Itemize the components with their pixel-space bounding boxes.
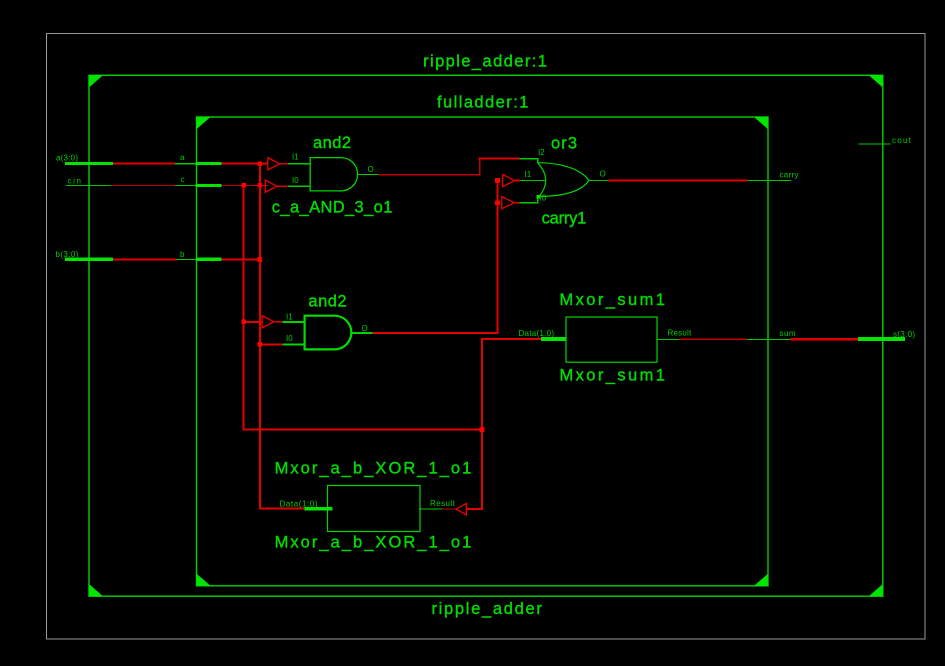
wire cin red bbox=[111, 185, 175, 186]
svg-text:Mxor_a_b_XOR_1_o1: Mxor_a_b_XOR_1_o1 bbox=[275, 459, 472, 477]
node square or3 bottom-left bbox=[536, 195, 540, 199]
svg-text:I1: I1 bbox=[525, 170, 532, 179]
and2 gate c_a_AND_3_o1 bbox=[272, 134, 393, 217]
pin O wire and2b bbox=[351, 332, 372, 334]
svg-text:Result: Result bbox=[430, 499, 456, 508]
svg-text:Mxor_sum1: Mxor_sum1 bbox=[560, 367, 665, 385]
junction or3 I1 row V4 bbox=[495, 178, 500, 183]
svg-text:O: O bbox=[600, 170, 606, 179]
pin I0 bend or3 bbox=[537, 197, 538, 203]
svg-text:I1: I1 bbox=[286, 313, 293, 322]
and2 gate lower (Mand) bbox=[305, 292, 352, 349]
wire V2 horizontal y=429.5 bbox=[243, 429, 483, 431]
svg-text:c: c bbox=[181, 175, 185, 184]
pin b bar on fulladder bbox=[196, 258, 222, 261]
output port s(3:0) bar bbox=[858, 337, 905, 341]
svg-text:O: O bbox=[362, 324, 368, 333]
wire Result buffer to V3 bbox=[466, 508, 483, 510]
svg-text:fulladder:1: fulladder:1 bbox=[437, 93, 528, 111]
pin Result wire Mxor_sum1 bbox=[657, 339, 679, 340]
buffer on or3 I1 bbox=[503, 175, 515, 187]
net a green stub bbox=[175, 163, 197, 164]
svg-text:s(3:0): s(3:0) bbox=[893, 330, 915, 339]
svg-text:Mxor_a_b_XOR_1_o1: Mxor_a_b_XOR_1_o1 bbox=[275, 534, 472, 552]
wire V3 horizontal to Mxor_sum1 Data bbox=[481, 338, 542, 340]
input port b(3:0) pin bar bbox=[65, 258, 113, 261]
net c green stub bbox=[175, 185, 197, 186]
input port a(3:0) pin bar bbox=[65, 162, 113, 165]
wire and2a O to or3 I2 upper bbox=[479, 158, 520, 160]
pin I0 wire and2a bbox=[288, 186, 310, 187]
wire and2a O vertical step up bbox=[479, 158, 480, 176]
svg-text:carry1: carry1 bbox=[542, 210, 587, 228]
svg-text:I0: I0 bbox=[286, 334, 293, 343]
net carry green stub bbox=[748, 180, 792, 181]
wire stub after buffer I0 bbox=[277, 185, 288, 187]
buffer on and2a I1 bbox=[268, 158, 280, 170]
buffer on and2a I0 bbox=[265, 180, 277, 192]
svg-text:Data(1:0): Data(1:0) bbox=[519, 329, 555, 338]
junction a-row V1 bbox=[258, 162, 263, 167]
svg-text:ripple_adder:1: ripple_adder:1 bbox=[423, 52, 547, 70]
pin c bar on fulladder bbox=[196, 184, 222, 187]
pin I2 wire or3 green bbox=[520, 158, 538, 159]
junction and2b I0 row V1 bbox=[258, 342, 263, 347]
wire b to junction bbox=[222, 259, 261, 261]
svg-text:Mxor_sum1: Mxor_sum1 bbox=[560, 291, 665, 309]
svg-text:Result: Result bbox=[668, 328, 692, 337]
wire cin green stub outer bbox=[66, 185, 111, 186]
junction b-row V1 bbox=[258, 257, 263, 262]
module ripple_adder boundary box bbox=[89, 75, 883, 596]
svg-text:I0: I0 bbox=[540, 194, 547, 203]
or3 gate carry1 bbox=[538, 135, 589, 228]
Mxor_a_b_XOR_1_o1 block bbox=[275, 459, 472, 551]
pin a bar on fulladder bbox=[196, 162, 222, 165]
wire stub after buffer I1 bbox=[280, 163, 289, 165]
output port cout stub bbox=[859, 143, 891, 144]
pin O wire or3 bbox=[589, 180, 609, 181]
svg-text:or3: or3 bbox=[551, 135, 577, 153]
wire V4 horizontal from and2b output bbox=[373, 332, 499, 334]
wire a bus red bbox=[113, 163, 175, 165]
wire sum red thin bbox=[679, 339, 747, 340]
Mxor_sum1 block bbox=[560, 291, 665, 385]
svg-text:I0: I0 bbox=[292, 176, 299, 185]
buffer on Mxor_a_b Result (left pointing) bbox=[456, 503, 466, 515]
svg-text:cin: cin bbox=[68, 177, 82, 186]
net sum green stub bbox=[747, 339, 791, 340]
junction cin-row V2 bbox=[241, 183, 246, 188]
pin I0 wire and2b bbox=[282, 343, 304, 345]
wire and2a O to or3 I2 horizontal bbox=[379, 174, 481, 175]
wire b bus red bbox=[113, 259, 177, 261]
pin I1 wire and2b bbox=[282, 321, 304, 323]
svg-text:carry: carry bbox=[780, 170, 799, 179]
net b green stub bbox=[176, 259, 197, 260]
svg-text:I2: I2 bbox=[538, 148, 545, 157]
wire a to buffer bbox=[222, 163, 269, 165]
pin O wire and2a bbox=[358, 174, 379, 175]
wire V1 horizontal to Mxor_a_b Data bbox=[259, 508, 305, 510]
svg-text:and2: and2 bbox=[308, 292, 346, 310]
junction and2b I1 row V2 bbox=[241, 319, 246, 324]
wire stub after or3 I1 buffer bbox=[515, 180, 520, 182]
junction cin-row V1 bbox=[258, 183, 263, 188]
wire vertical V4 x=497.5 bbox=[497, 181, 499, 334]
wire stub after or3 I0 buffer bbox=[514, 202, 520, 204]
svg-text:a: a bbox=[180, 153, 185, 162]
wire V2 junction to and2b I1 buffer bbox=[245, 321, 263, 323]
wire sum to s(3:0) red bbox=[791, 338, 859, 340]
pin Data(1:0) bar Mxor_a_b bbox=[305, 507, 333, 511]
wire carry red bbox=[609, 180, 748, 182]
pin Result wire Mxor_a_b bbox=[419, 508, 442, 509]
module fulladder boundary box bbox=[197, 117, 769, 586]
wire vertical V3 x=482 bbox=[481, 339, 483, 509]
svg-text:ripple_adder: ripple_adder bbox=[432, 600, 543, 618]
svg-text:and2: and2 bbox=[313, 134, 351, 152]
wire Result red stub to buffer apex bbox=[442, 508, 456, 509]
svg-text:I1: I1 bbox=[292, 153, 299, 162]
svg-text:b: b bbox=[180, 250, 185, 259]
pin I2 bend or3 bbox=[537, 158, 538, 164]
svg-text:sum: sum bbox=[780, 329, 796, 338]
wire V1 junction to and2b I0 bbox=[261, 343, 283, 345]
buffer on or3 I0 bbox=[502, 197, 514, 209]
pin I1 wire or3 bbox=[520, 180, 546, 181]
wire vertical V1 x=259.8 bbox=[259, 164, 261, 510]
buffer on and2b I1 bbox=[262, 316, 274, 328]
svg-text:a(3:0): a(3:0) bbox=[56, 154, 78, 163]
wire c to buffer bbox=[222, 185, 269, 186]
svg-text:c_a_AND_3_o1: c_a_AND_3_o1 bbox=[272, 199, 393, 217]
wire stub after and2b I1 buffer bbox=[274, 321, 283, 323]
svg-text:O: O bbox=[368, 165, 374, 174]
pin Data(1:0) bar Mxor_sum1 bbox=[541, 337, 567, 341]
junction or3 I0 row V4 bbox=[495, 200, 500, 205]
wire vertical V2 x=243.5 bbox=[243, 185, 245, 430]
pin I1 wire and2a bbox=[288, 163, 310, 164]
junction V2-horizontal V3 bbox=[480, 427, 485, 432]
pin I0 wire or3 bbox=[520, 202, 539, 203]
